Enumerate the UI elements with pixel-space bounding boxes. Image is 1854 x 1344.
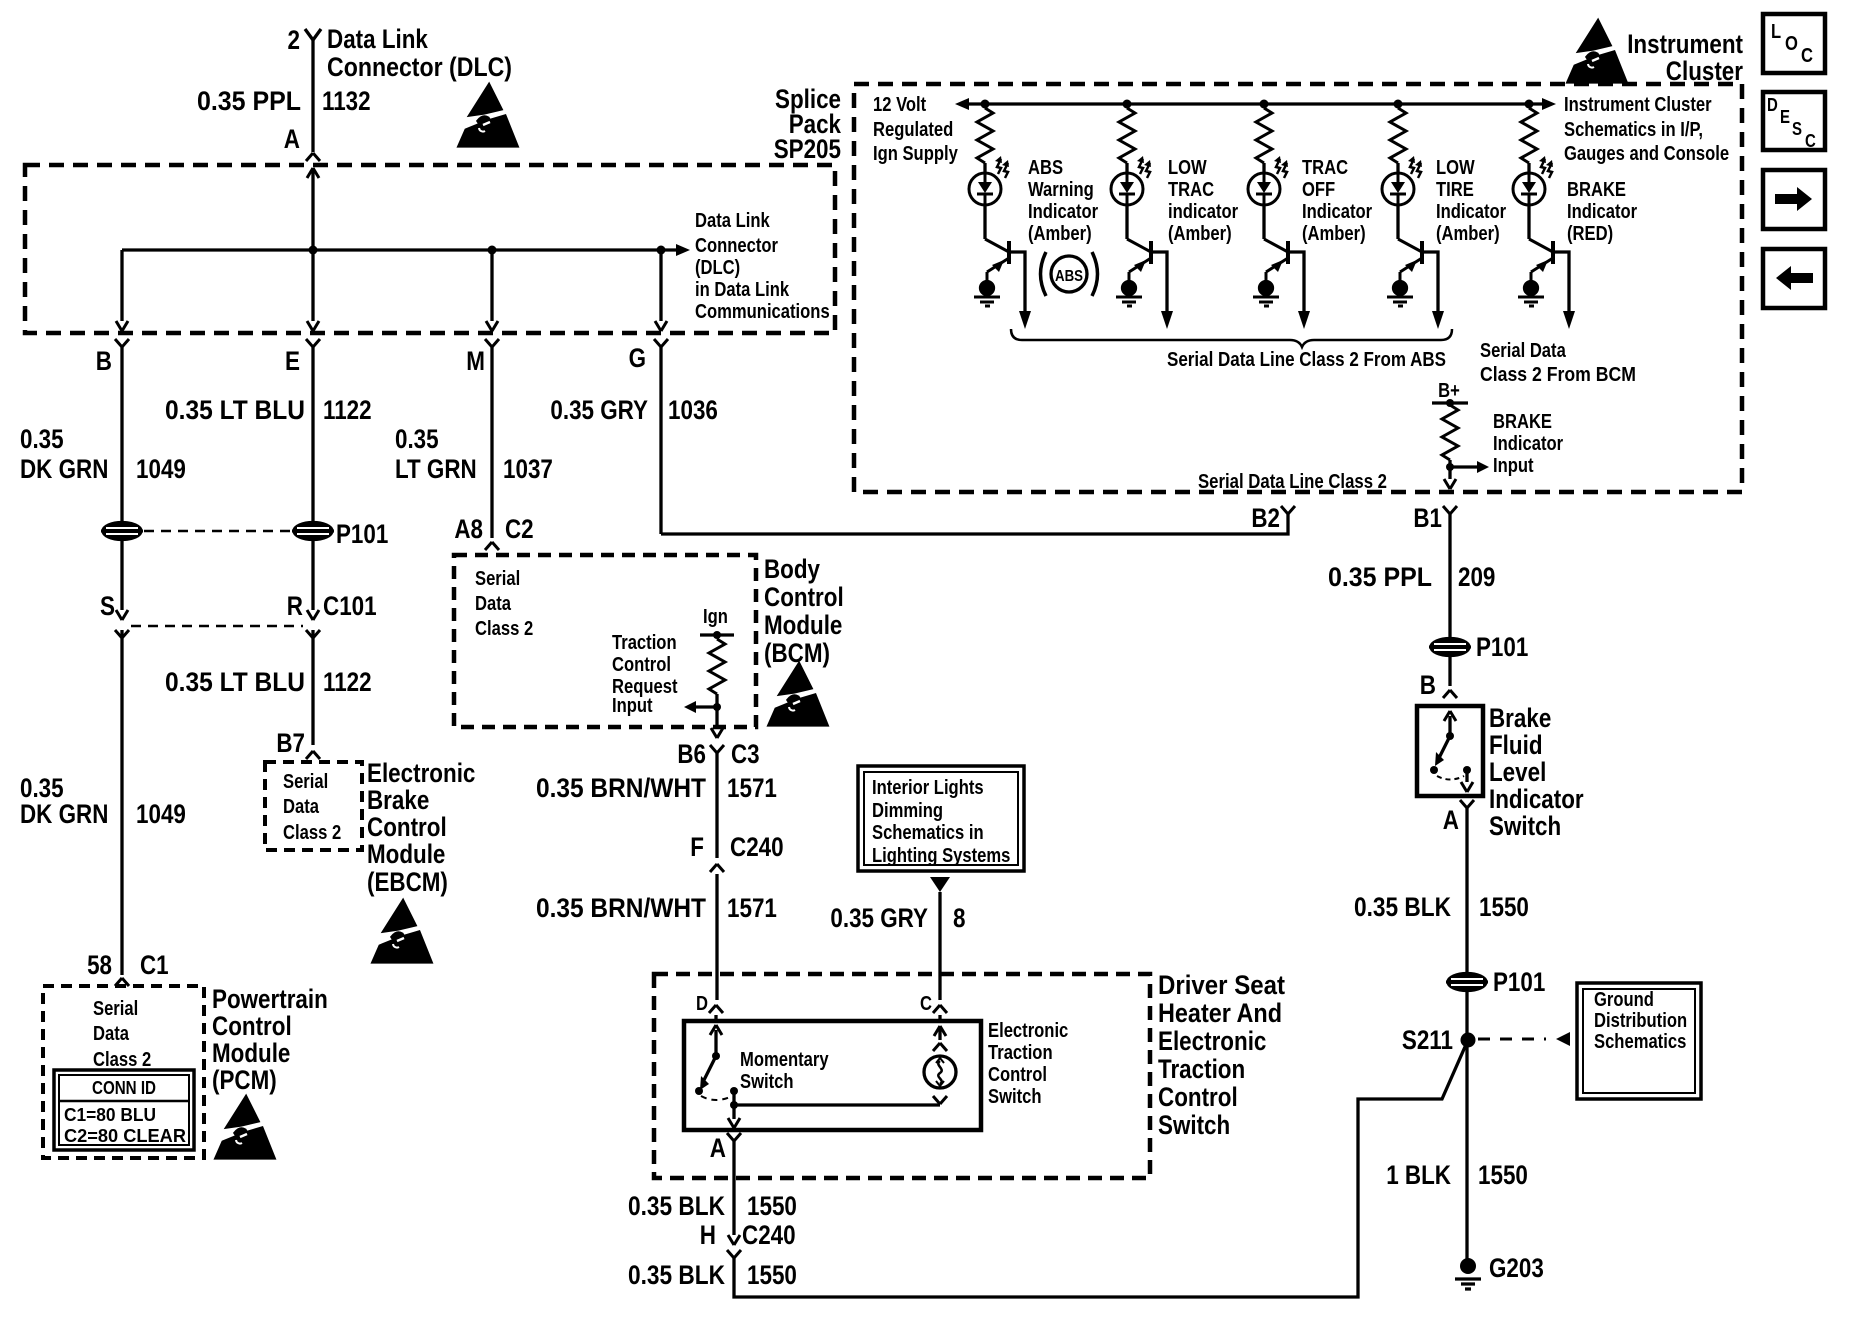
svg-text:Serial Data Line Class 2 From: Serial Data Line Class 2 From ABS — [1167, 349, 1446, 371]
collector wire to serial data line — [1288, 252, 1304, 313]
momentary switch contact arrow — [714, 1030, 717, 1056]
svg-text:Switch: Switch — [1489, 811, 1561, 841]
svg-text:P101: P101 — [1493, 967, 1545, 997]
svg-text:Control: Control — [212, 1011, 292, 1041]
svg-text:Indicator: Indicator — [1436, 201, 1506, 223]
LED BRAKE indicator — [1513, 156, 1553, 205]
node at B+ — [1446, 399, 1454, 407]
svg-text:M: M — [466, 346, 485, 376]
node LOW TRAC branch — [1123, 100, 1132, 109]
wire 1132 (0.35 PPL) from DLC pin 2 to splice pack A — [311, 40, 314, 152]
driver seat heater / traction control switch dashed box — [654, 974, 1150, 1178]
svg-text:(Amber): (Amber) — [1436, 223, 1500, 245]
svg-text:LOW: LOW — [1436, 157, 1475, 179]
connector chevron A8/C2 into BCM — [485, 542, 499, 550]
svg-text:B6: B6 — [677, 739, 706, 769]
dashed travel arc — [701, 1096, 732, 1100]
wire out of switch pin A — [732, 1105, 735, 1119]
chevron B1 — [1443, 506, 1457, 514]
wire D into momentary switch — [714, 1015, 717, 1021]
svg-text:Traction: Traction — [612, 632, 677, 654]
svg-text:0.35 BLK: 0.35 BLK — [1354, 892, 1451, 922]
svg-text:0.35 PPL: 0.35 PPL — [1328, 562, 1432, 592]
wire 1550 (0.35 BLK) to P101 — [1465, 808, 1468, 974]
svg-text:in Data Link: in Data Link — [695, 279, 790, 301]
svg-text:CONN ID: CONN ID — [92, 1078, 156, 1098]
svg-text:0.35 BRN/WHT: 0.35 BRN/WHT — [536, 893, 706, 923]
svg-text:Powertrain: Powertrain — [212, 984, 328, 1014]
chevron pin A — [1460, 800, 1474, 808]
back arrow nav box — [1763, 249, 1825, 308]
dashed connector link P101 — [144, 530, 291, 533]
12V supply bus wire — [969, 102, 1542, 105]
switch contact left — [695, 1087, 703, 1095]
svg-text:Traction: Traction — [988, 1042, 1053, 1064]
svg-text:Class 2: Class 2 — [93, 1049, 151, 1071]
svg-text:Input: Input — [612, 695, 653, 717]
svg-text:BRAKE: BRAKE — [1493, 411, 1552, 433]
svg-text:Ign Supply: Ign Supply — [873, 143, 959, 165]
dashed reference to ground distribution — [1478, 1038, 1546, 1041]
svg-text:(Amber): (Amber) — [1168, 223, 1232, 245]
svg-text:Switch: Switch — [1158, 1110, 1230, 1140]
node LOW TIRE branch — [1394, 100, 1403, 109]
svg-text:1049: 1049 — [136, 799, 186, 829]
svg-text:(EBCM): (EBCM) — [367, 867, 448, 897]
svg-text:Brake: Brake — [367, 785, 429, 815]
svg-text:Instrument: Instrument — [1627, 29, 1743, 59]
svg-text:E: E — [1780, 107, 1790, 127]
svg-text:B: B — [96, 346, 112, 376]
resistor (LOW TIRE indicator) — [1390, 108, 1406, 163]
switch contact right — [730, 1087, 738, 1095]
svg-text:F: F — [690, 832, 704, 862]
connector pin 2 Y symbol — [305, 29, 321, 40]
svg-text:Indicator: Indicator — [1489, 784, 1584, 814]
resistor (TRAC OFF indicator) — [1256, 108, 1272, 163]
wire 8 (0.35 GRY) down to switch pin C — [938, 892, 941, 1000]
svg-text:Schematics in: Schematics in — [872, 822, 984, 844]
svg-text:C240: C240 — [730, 832, 784, 862]
svg-text:Ign: Ign — [703, 606, 728, 628]
svg-text:Driver Seat: Driver Seat — [1158, 970, 1285, 1000]
svg-text:Heater And: Heater And — [1158, 998, 1282, 1028]
node on Ign feed — [713, 631, 721, 639]
dashed travel arc — [1437, 776, 1464, 780]
pass-through connector P101 (lower) — [1446, 974, 1488, 991]
ground (LOW TIRE driver emitter) — [1387, 282, 1413, 307]
svg-text:C: C — [920, 993, 932, 1015]
brace: serial data line class 2 from ABS — [1011, 329, 1452, 347]
svg-text:209: 209 — [1458, 562, 1495, 592]
wire to splice S211 — [1465, 990, 1468, 1260]
svg-text:S211: S211 — [1402, 1025, 1453, 1055]
node below brake resistor — [1446, 463, 1454, 471]
svg-text:L: L — [1771, 21, 1781, 43]
lamp filament squiggle — [938, 1061, 941, 1084]
LED TRAC OFF indicator — [1248, 156, 1288, 205]
svg-text:Control: Control — [988, 1064, 1047, 1086]
node ABS branch — [981, 100, 990, 109]
ABS telltale emblem — [1051, 256, 1087, 292]
svg-text:Distribution: Distribution — [1594, 1010, 1687, 1032]
svg-text:B1: B1 — [1413, 503, 1442, 533]
transistor TRAC OFF driver — [1264, 239, 1288, 281]
svg-text:H: H — [700, 1220, 716, 1250]
svg-text:Class 2: Class 2 — [475, 618, 533, 640]
forward arrow nav box — [1763, 170, 1825, 229]
chevron B7 into EBCM — [306, 751, 320, 759]
ground (BRAKE driver emitter) — [1518, 282, 1544, 307]
svg-text:0.35: 0.35 — [20, 424, 64, 454]
svg-text:B: B — [1420, 670, 1436, 700]
drop wire B — [120, 250, 123, 524]
switch pivot — [1446, 732, 1454, 740]
ESD symbol (PCM) — [216, 1097, 274, 1158]
wire — [983, 204, 986, 239]
node below resistor — [713, 703, 721, 711]
svg-text:Level: Level — [1489, 757, 1546, 787]
svg-text:1037: 1037 — [503, 454, 553, 484]
indicator lamp in switch — [924, 1056, 956, 1088]
svg-text:Regulated: Regulated — [873, 119, 953, 141]
svg-text:DK GRN: DK GRN — [20, 799, 108, 829]
svg-text:TRAC: TRAC — [1302, 157, 1348, 179]
svg-text:0.35 GRY: 0.35 GRY — [550, 395, 648, 425]
svg-text:Ground: Ground — [1594, 989, 1654, 1011]
PCM dashed box — [43, 986, 204, 1158]
splice node S211 — [1461, 1033, 1476, 1048]
svg-text:0.35 BLK: 0.35 BLK — [628, 1191, 725, 1221]
svg-text:(Amber): (Amber) — [1028, 223, 1092, 245]
transistor BRAKE driver — [1529, 239, 1553, 281]
svg-text:OFF: OFF — [1302, 179, 1335, 201]
svg-text:TRAC: TRAC — [1168, 179, 1214, 201]
pass-through connector P101 — [1429, 639, 1471, 656]
node at G — [657, 246, 666, 255]
chevron pin D — [709, 1005, 723, 1013]
wire E continues to connector C101 pin R — [311, 538, 314, 745]
svg-text:TIRE: TIRE — [1436, 179, 1474, 201]
svg-text:Schematics: Schematics — [1594, 1031, 1686, 1053]
svg-text:(RED): (RED) — [1567, 223, 1613, 245]
ground (TRAC OFF driver emitter) — [1253, 282, 1279, 307]
DESC nav box — [1763, 92, 1825, 150]
wire B continues to connector C101 pin S — [120, 538, 123, 975]
Interior Lights reference box — [858, 766, 1024, 871]
svg-text:0.35 BRN/WHT: 0.35 BRN/WHT — [536, 773, 706, 803]
svg-text:Serial: Serial — [283, 771, 328, 793]
wire down to pin B1 — [1448, 467, 1451, 479]
svg-text:Data: Data — [93, 1023, 130, 1045]
svg-text:1122: 1122 — [323, 667, 372, 697]
resistor (ABS warning indicator) — [977, 108, 993, 163]
svg-text:Serial Data Line Class 2: Serial Data Line Class 2 — [1198, 471, 1387, 493]
svg-text:Connector: Connector — [695, 235, 778, 257]
svg-text:(PCM): (PCM) — [212, 1065, 277, 1095]
wire — [1262, 163, 1265, 174]
svg-text:Indicator: Indicator — [1493, 433, 1563, 455]
splice pack pin A chevron — [306, 153, 320, 161]
momentary switch box — [684, 1021, 981, 1130]
wire across to lamp branch — [734, 1103, 940, 1106]
supply bus left arrow — [955, 98, 969, 110]
svg-text:0.35 BLK: 0.35 BLK — [628, 1260, 725, 1290]
svg-text:1550: 1550 — [1478, 1160, 1528, 1190]
wire 1571 from C240 to switch pin D — [715, 874, 718, 1000]
svg-text:Indicator: Indicator — [1302, 201, 1372, 223]
wire from contact to output node — [732, 1091, 735, 1105]
svg-text:1036: 1036 — [668, 395, 718, 425]
svg-text:Data Link: Data Link — [695, 210, 770, 232]
svg-text:Indicator: Indicator — [1567, 201, 1637, 223]
ESD symbol (DLC) — [459, 85, 517, 146]
wire — [1125, 163, 1128, 174]
svg-text:0.35 PPL: 0.35 PPL — [197, 86, 301, 116]
resistor (LOW TRAC indicator) — [1119, 108, 1135, 163]
svg-text:0.35 GRY: 0.35 GRY — [830, 903, 928, 933]
svg-text:G: G — [629, 343, 646, 373]
svg-text:Control: Control — [612, 654, 671, 676]
brake indicator input arrow — [1450, 465, 1477, 468]
chevron pin 58 into PCM — [115, 978, 129, 986]
svg-text:0.35 LT BLU: 0.35 LT BLU — [165, 395, 305, 425]
wire — [1262, 204, 1265, 239]
collector wire to serial data line — [1009, 252, 1025, 313]
transistor ABS driver — [985, 239, 1009, 281]
wire — [1125, 204, 1128, 239]
node TRAC OFF branch — [1260, 100, 1269, 109]
node at E — [309, 246, 318, 255]
svg-text:B2: B2 — [1251, 503, 1280, 533]
svg-text:Serial Data: Serial Data — [1480, 340, 1567, 362]
dashed connector link C101 — [131, 625, 303, 628]
splice bus wire — [122, 248, 676, 251]
svg-text:Warning: Warning — [1028, 179, 1094, 201]
chevron F/C240 — [710, 864, 724, 872]
node BRAKE branch — [1525, 100, 1534, 109]
chevron pin A — [727, 1133, 741, 1141]
svg-text:Interior Lights: Interior Lights — [872, 777, 984, 799]
bus arrow to DLC reference — [676, 244, 690, 256]
svg-text:D: D — [1767, 95, 1778, 115]
ESD symbol (instrument cluster) — [1568, 21, 1626, 82]
wire 1550 from A to C240 pin H — [732, 1141, 735, 1235]
svg-text:Switch: Switch — [740, 1071, 794, 1093]
svg-text:C240: C240 — [742, 1220, 796, 1250]
svg-text:Electronic: Electronic — [1158, 1026, 1266, 1056]
svg-text:G203: G203 — [1489, 1253, 1544, 1283]
LOC nav box — [1763, 14, 1825, 73]
collector wire to serial data line — [1151, 252, 1167, 313]
wire 209 (0.35 PPL) from B1 to P101 — [1448, 514, 1451, 639]
switch pivot — [712, 1052, 720, 1060]
ESD symbol (BCM) — [769, 664, 827, 725]
svg-text:Traction: Traction — [1158, 1054, 1245, 1084]
svg-text:Fluid: Fluid — [1489, 730, 1543, 760]
svg-text:Class 2: Class 2 — [283, 822, 341, 844]
svg-text:Brake: Brake — [1489, 703, 1551, 733]
svg-text:Communications: Communications — [695, 301, 830, 323]
traction control request input arrow — [694, 705, 717, 708]
svg-text:BRAKE: BRAKE — [1567, 179, 1626, 201]
svg-text:1550: 1550 — [1479, 892, 1529, 922]
EBCM serial data dashed box — [265, 762, 362, 850]
transistor LOW TIRE driver — [1398, 239, 1422, 281]
svg-text:C1=80 BLU: C1=80 BLU — [64, 1105, 156, 1125]
svg-text:Data Link: Data Link — [327, 24, 429, 54]
wire to brake fluid switch pin B — [1448, 655, 1451, 686]
svg-text:Schematics in I/P,: Schematics in I/P, — [1564, 119, 1703, 141]
drop wire M — [490, 250, 493, 538]
pass-through connector P101 on wire B — [101, 523, 143, 540]
chevron pin B — [1443, 690, 1457, 698]
svg-text:ABS: ABS — [1055, 268, 1083, 285]
svg-text:Serial: Serial — [93, 998, 138, 1020]
svg-text:(Amber): (Amber) — [1302, 223, 1366, 245]
svg-text:1 BLK: 1 BLK — [1386, 1160, 1451, 1190]
svg-text:0.35 LT BLU: 0.35 LT BLU — [165, 667, 305, 697]
svg-text:1550: 1550 — [747, 1191, 797, 1221]
BCM dashed box — [454, 555, 756, 727]
svg-text:Data: Data — [283, 796, 320, 818]
svg-text:Class 2 From BCM: Class 2 From BCM — [1480, 364, 1636, 386]
svg-text:DK GRN: DK GRN — [20, 454, 108, 484]
drop wire G — [659, 250, 662, 534]
svg-text:Switch: Switch — [988, 1086, 1042, 1108]
svg-text:Module: Module — [764, 610, 842, 640]
svg-text:(DLC): (DLC) — [695, 257, 740, 279]
svg-text:Control: Control — [367, 812, 447, 842]
wire from B2 to splice G — [661, 514, 1288, 534]
svg-text:C: C — [1801, 45, 1813, 67]
svg-text:Indicator: Indicator — [1028, 201, 1098, 223]
svg-text:8: 8 — [953, 903, 966, 933]
svg-text:R: R — [287, 591, 303, 621]
svg-text:1122: 1122 — [323, 395, 372, 425]
svg-text:A: A — [710, 1133, 726, 1163]
switch contact arrow up — [1448, 716, 1451, 735]
wire contact to pin A — [1465, 770, 1468, 782]
svg-text:Body: Body — [764, 554, 820, 584]
supply bus right arrow — [1542, 98, 1556, 110]
ESD symbol (EBCM) — [373, 901, 431, 962]
chevron B2 — [1281, 506, 1295, 514]
svg-text:P101: P101 — [1476, 632, 1528, 662]
switch contact left — [1430, 766, 1438, 774]
chevron B6/C3 — [710, 745, 724, 753]
ground distribution schematics box — [1577, 983, 1701, 1099]
svg-text:2: 2 — [288, 25, 301, 55]
svg-text:S: S — [1792, 119, 1802, 139]
svg-text:A: A — [1443, 805, 1459, 835]
brake fluid level indicator switch box — [1417, 706, 1483, 796]
svg-text:1571: 1571 — [727, 893, 777, 923]
transistor LOW TRAC driver — [1127, 239, 1151, 281]
svg-text:Electronic: Electronic — [988, 1020, 1068, 1042]
svg-text:P101: P101 — [336, 519, 388, 549]
svg-text:Electronic: Electronic — [367, 758, 475, 788]
svg-text:Connector (DLC): Connector (DLC) — [327, 52, 512, 82]
svg-text:C101: C101 — [323, 591, 377, 621]
svg-text:SP205: SP205 — [774, 134, 841, 164]
svg-text:C2=80 CLEAR: C2=80 CLEAR — [64, 1126, 186, 1146]
wire out of BCM pin B6 — [715, 707, 718, 728]
arrow from interior lights reference — [930, 877, 950, 892]
wire — [1527, 163, 1530, 174]
resistor (BRAKE indicator) — [1521, 108, 1537, 163]
lamp chevron — [933, 1096, 947, 1104]
connector H / C240 — [728, 1235, 740, 1245]
chevron pin C — [933, 1005, 947, 1013]
svg-text:Lighting Systems: Lighting Systems — [872, 845, 1010, 867]
svg-text:LOW: LOW — [1168, 157, 1207, 179]
svg-text:indicator: indicator — [1168, 201, 1238, 223]
instrument cluster dashed box — [854, 84, 1742, 492]
ground (LOW TRAC driver emitter) — [1116, 282, 1142, 307]
wire C into lamp — [938, 1015, 941, 1021]
splice pack SP205 dashed box — [25, 165, 835, 333]
output node — [730, 1101, 738, 1109]
CONN ID table — [54, 1070, 194, 1150]
svg-text:C3: C3 — [731, 739, 760, 769]
wire — [1396, 163, 1399, 174]
svg-text:B7: B7 — [276, 728, 305, 758]
svg-text:Instrument Cluster: Instrument Cluster — [1564, 94, 1712, 116]
svg-text:1049: 1049 — [136, 454, 186, 484]
LED LOW TIRE indicator — [1382, 156, 1422, 205]
LED LOW TRAC indicator — [1111, 156, 1151, 205]
switch blade — [703, 1056, 716, 1082]
svg-text:LT GRN: LT GRN — [395, 454, 477, 484]
svg-text:A: A — [284, 124, 300, 154]
svg-text:1550: 1550 — [747, 1260, 797, 1290]
svg-text:Gauges and Console: Gauges and Console — [1564, 143, 1729, 165]
collector wire to serial data from BCM — [1553, 252, 1569, 313]
svg-text:A8: A8 — [454, 514, 483, 544]
wire — [1527, 204, 1530, 239]
wire — [1396, 204, 1399, 239]
svg-text:(BCM): (BCM) — [764, 638, 830, 668]
svg-text:Data: Data — [475, 593, 512, 615]
resistor: traction control request pull-up — [709, 639, 725, 694]
svg-text:1132: 1132 — [322, 86, 371, 116]
svg-text:Serial: Serial — [475, 568, 520, 590]
switch blade — [1439, 736, 1450, 758]
svg-text:ABS: ABS — [1028, 157, 1063, 179]
resistor: brake indicator input — [1442, 405, 1458, 460]
ground G203 — [1460, 1258, 1476, 1274]
collector wire to serial data line — [1422, 252, 1438, 313]
svg-text:Cluster: Cluster — [1666, 56, 1744, 86]
svg-text:Momentary: Momentary — [740, 1049, 829, 1071]
svg-text:E: E — [285, 346, 300, 376]
svg-text:Control: Control — [1158, 1082, 1238, 1112]
LED ABS warning indicator — [969, 156, 1009, 205]
arrow up into splice pack at A — [311, 168, 314, 250]
switch contact right — [1463, 766, 1471, 774]
svg-text:Control: Control — [764, 582, 844, 612]
wire 1571 from B6 to C240 pin F — [715, 753, 718, 858]
ground (ABS driver emitter) — [974, 282, 1000, 307]
svg-text:B+: B+ — [1438, 380, 1460, 402]
pass-through connector P101 on wire E — [292, 523, 334, 540]
svg-text:58: 58 — [87, 950, 112, 980]
node at M — [488, 246, 497, 255]
svg-text:Dimming: Dimming — [872, 800, 943, 822]
B+ feed tick — [1432, 401, 1468, 404]
svg-text:C: C — [1805, 131, 1816, 151]
